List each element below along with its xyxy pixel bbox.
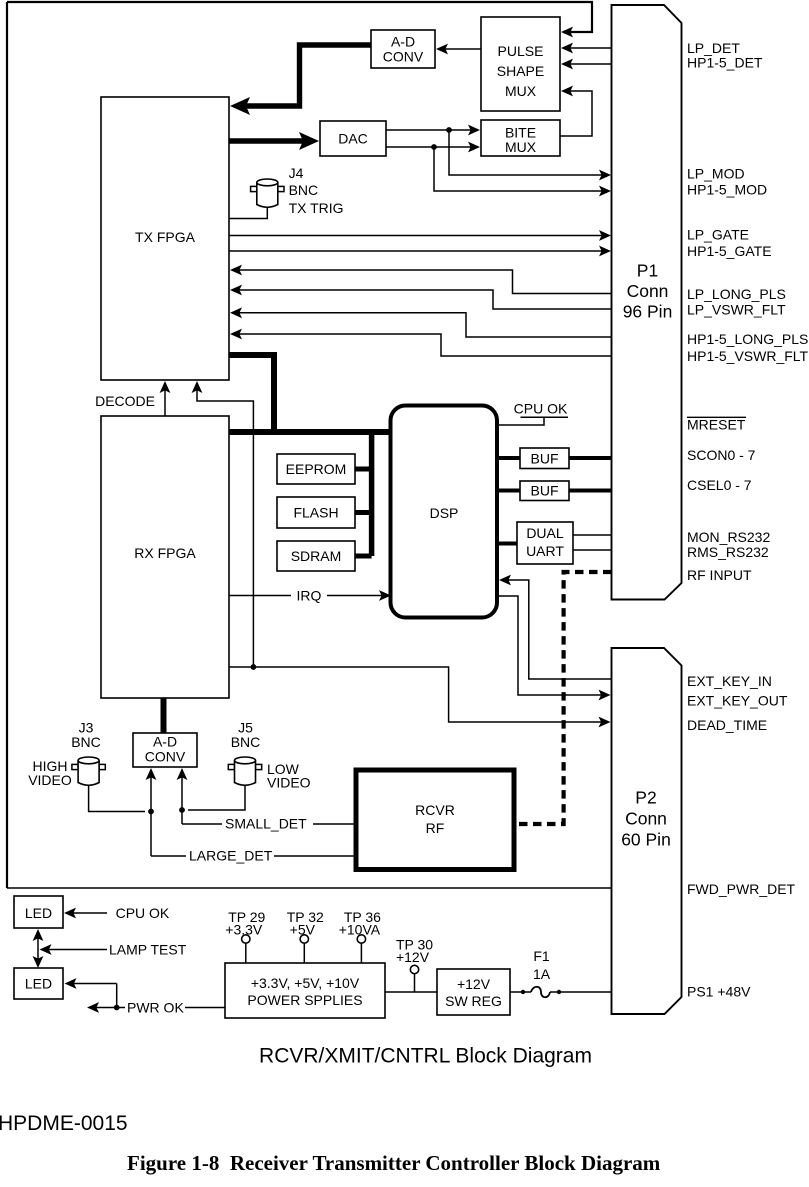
- wire decode select from lower bus to TX FPGA: [192, 381, 254, 667]
- net label RMS_RS232: [687, 544, 769, 560]
- svg-text:SDRAM: SDRAM: [291, 548, 342, 564]
- svg-text:96 Pin: 96 Pin: [623, 302, 673, 322]
- wire LP_GATE TX FPGA to P1: [229, 230, 611, 241]
- junction LARGE_DET: [148, 809, 154, 815]
- wire junction up into A-D CONV left arrow: [146, 768, 157, 812]
- test point TP 32: [287, 909, 324, 963]
- block BUF 1: [520, 448, 569, 469]
- svg-text:+5V: +5V: [290, 921, 316, 937]
- wire CPU OK into LED 1: [64, 908, 107, 919]
- block LED 2: [14, 968, 63, 999]
- svg-text:IRQ: IRQ: [297, 587, 322, 603]
- test point TP 29: [225, 909, 265, 963]
- caption Figure 1-8: [127, 1151, 661, 1175]
- connector J5 BNC low video: [228, 719, 310, 790]
- svg-text:J4: J4: [289, 165, 304, 181]
- svg-text:MUX: MUX: [505, 83, 537, 99]
- wire PWR OK to POWER SUPPLIES: [117, 1007, 225, 1009]
- svg-text:HP1-5_LONG_PLS: HP1-5_LONG_PLS: [687, 331, 808, 347]
- net label HP1-5_MOD: [687, 181, 767, 197]
- wire HP1-5_GATE TX FPGA to P1: [229, 246, 611, 257]
- svg-text:A-D: A-D: [391, 33, 415, 49]
- wire DAC output 2 to BITE MUX: [386, 142, 480, 153]
- svg-text:A-D: A-D: [153, 733, 177, 749]
- net label RF INPUT: [687, 567, 752, 583]
- svg-text:LAMP TEST: LAMP TEST: [109, 941, 187, 957]
- svg-text:MON_RS232: MON_RS232: [687, 529, 770, 545]
- net label LP_DET: [687, 40, 740, 56]
- wire thick main data bus RX FPGA to DSP: [229, 429, 393, 435]
- net label SMALL_DET: [225, 815, 307, 831]
- svg-text:PWR OK: PWR OK: [127, 999, 184, 1015]
- svg-text:RF: RF: [426, 820, 445, 836]
- svg-text:HPDME-0015: HPDME-0015: [0, 1112, 128, 1135]
- svg-text:BUF: BUF: [531, 450, 559, 466]
- svg-text:CONV: CONV: [383, 48, 424, 64]
- wire thick stub bus to SDRAM: [355, 554, 372, 559]
- wire DECODE RX FPGA to TX FPGA: [160, 381, 171, 416]
- svg-text:LARGE_DET: LARGE_DET: [189, 847, 273, 863]
- block FLASH: [277, 497, 355, 528]
- svg-text:+10VA: +10VA: [339, 921, 381, 937]
- svg-text:+3.3V, +5V, +10V: +3.3V, +5V, +10V: [251, 975, 360, 991]
- net label LARGE_DET: [189, 847, 273, 863]
- block DSP: [391, 406, 498, 618]
- wire top border feeding PULSE SHAPE MUX: [7, 2, 592, 37]
- net label MRESET with overbar: [687, 416, 746, 432]
- wire LP_DET P1 to PULSE SHAPE MUX: [561, 43, 612, 54]
- net label IRQ: [297, 587, 322, 603]
- junction DAC output 1: [446, 127, 452, 133]
- svg-text:CPU OK: CPU OK: [116, 905, 170, 921]
- net label LP_GATE: [687, 226, 749, 242]
- svg-text:VIDEO: VIDEO: [28, 772, 72, 788]
- svg-text:FLASH: FLASH: [293, 504, 338, 520]
- wire left border: [6, 2, 8, 888]
- svg-text:PS1 +48V: PS1 +48V: [687, 983, 751, 999]
- net label HP1-5_DET: [687, 54, 763, 70]
- wire thick stub bus to EEPROM: [355, 467, 372, 472]
- net label SCON0 - 7: [687, 447, 756, 463]
- net label PWR OK: [127, 999, 184, 1015]
- svg-text:Figure 1-8 Receiver Transmitt: Figure 1-8 Receiver Transmitter Controll…: [127, 1151, 661, 1175]
- svg-text:HP1-5_MOD: HP1-5_MOD: [687, 181, 767, 197]
- svg-text:BUF: BUF: [531, 482, 559, 498]
- wire LED to LED double arrow: [33, 929, 44, 968]
- connector J3 BNC high video: [28, 719, 105, 788]
- block A-D CONV bottom: [133, 733, 197, 767]
- wire HP1-5_VSWR_FLT P1 to TX FPGA: [230, 329, 612, 356]
- wire RMS_RS232 DUAL UART to P1: [573, 549, 612, 551]
- block SDRAM: [277, 541, 355, 571]
- wire LARGE_DET junction to RCVR RF: [151, 812, 357, 857]
- wire thick bus TX FPGA to DAC: [229, 132, 319, 150]
- svg-text:TX FPGA: TX FPGA: [135, 229, 196, 245]
- svg-text:P2: P2: [635, 788, 656, 808]
- wire HP1-5_LONG_PLS P1 to TX FPGA: [230, 307, 612, 337]
- wire thick DSP to BUF 2: [496, 489, 520, 493]
- wire junction up into A-D CONV right arrow: [177, 768, 188, 810]
- net label FWD_PWR_DET: [687, 881, 796, 897]
- junction PWR OK: [114, 1005, 120, 1011]
- svg-text:Conn: Conn: [627, 281, 669, 301]
- connector P1 96 pin: [612, 5, 682, 600]
- wire J5 BNC to SMALL_DET junction: [188, 783, 245, 810]
- wire thick BUF 1 to P1 SCON0-7: [569, 456, 612, 460]
- wire thick stub bus to FLASH: [355, 510, 372, 515]
- wire thick bus RX FPGA to A-D CONV: [161, 698, 167, 733]
- net label CPU OK: [514, 400, 568, 416]
- wire dashed RF INPUT P1 to RCVR RF: [516, 572, 612, 824]
- wire J3 BNC to LARGE_DET junction: [89, 783, 145, 812]
- svg-text:SW REG: SW REG: [445, 993, 502, 1009]
- svg-text:LED: LED: [25, 905, 52, 921]
- block TX FPGA: [101, 97, 229, 380]
- net label PS1 +48V: [687, 983, 751, 999]
- svg-text:SMALL_DET: SMALL_DET: [225, 815, 307, 831]
- net label HP1-5_LONG_PLS: [687, 331, 808, 347]
- caption RCVR/XMIT/CNTRL Block Diagram: [259, 1044, 592, 1067]
- net label HP1-5_GATE: [687, 243, 772, 259]
- svg-text:MRESET: MRESET: [687, 416, 746, 432]
- block BITE MUX: [481, 120, 560, 156]
- svg-text:BNC: BNC: [71, 734, 101, 750]
- block RX FPGA: [101, 416, 229, 698]
- svg-text:HP1-5_VSWR_FLT: HP1-5_VSWR_FLT: [687, 348, 809, 364]
- block RCVR RF: [356, 770, 514, 870]
- wire bottom border / FWD_PWR_DET net into P2: [7, 887, 612, 889]
- wire SMALL_DET junction to RCVR RF: [182, 810, 357, 824]
- svg-text:PULSE: PULSE: [498, 43, 544, 59]
- wire BITE MUX output loop to PULSE SHAPE MUX: [560, 86, 592, 136]
- svg-text:BNC: BNC: [231, 734, 261, 750]
- wire CPU OK from DSP: [496, 417, 568, 425]
- net label CSEL0 - 7: [687, 477, 752, 493]
- svg-text:SCON0 - 7: SCON0 - 7: [687, 447, 756, 463]
- wire TX FPGA to J4 BNC: [229, 205, 267, 219]
- svg-text:RCVR/XMIT/CNTRL Block Diagram: RCVR/XMIT/CNTRL Block Diagram: [259, 1044, 592, 1067]
- net label LP_MOD: [687, 165, 745, 181]
- wire PULSE SHAPE MUX to A-D CONV: [436, 44, 481, 55]
- svg-text:1A: 1A: [533, 966, 551, 982]
- block PULSE SHAPE MUX: [481, 17, 560, 111]
- block A-D CONV top: [371, 30, 435, 68]
- svg-text:+12V: +12V: [457, 976, 491, 992]
- svg-text:RCVR: RCVR: [415, 802, 455, 818]
- svg-text:CSEL0 - 7: CSEL0 - 7: [687, 477, 752, 493]
- net label MON_RS232: [687, 529, 770, 545]
- svg-text:P1: P1: [637, 261, 658, 281]
- wire LP_LONG_PLS P1 to TX FPGA: [230, 265, 612, 294]
- wire POWER SUPPLIES to +12V SW REG: [385, 991, 437, 993]
- net label LP_LONG_PLS: [687, 286, 786, 302]
- connector J4 BNC TX TRIG: [251, 165, 344, 216]
- block LED 1: [14, 896, 63, 928]
- svg-text:EXT_KEY_OUT: EXT_KEY_OUT: [687, 692, 788, 708]
- test point TP 30: [396, 936, 433, 992]
- svg-text:VIDEO: VIDEO: [267, 774, 311, 790]
- wire HP1-5_DET P1 to PULSE SHAPE MUX: [561, 59, 612, 70]
- wire PWR OK into LED 2: [65, 978, 117, 1007]
- svg-text:SHAPE: SHAPE: [497, 63, 544, 79]
- net label DECODE: [95, 393, 155, 409]
- junction DAC output 2: [431, 144, 437, 150]
- svg-text:+3.3V: +3.3V: [225, 921, 263, 937]
- svg-text:LED: LED: [25, 975, 52, 991]
- net label DEAD_TIME: [687, 717, 767, 733]
- wire LP_VSWR_FLT P1 to TX FPGA: [230, 285, 612, 309]
- svg-text:LP_LONG_PLS: LP_LONG_PLS: [687, 286, 786, 302]
- wire DEAD_TIME RX FPGA to P2: [229, 667, 611, 727]
- net label LP_VSWR_FLT: [687, 301, 786, 317]
- wire thick bus TX FPGA down to main bus: [229, 355, 274, 432]
- block DUAL UART: [517, 522, 573, 564]
- net label CPU OK bottom: [116, 905, 170, 921]
- svg-text:CPU OK: CPU OK: [514, 400, 568, 416]
- svg-text:60 Pin: 60 Pin: [621, 830, 671, 850]
- net label HP1-5_VSWR_FLT: [687, 348, 809, 364]
- svg-text:RX FPGA: RX FPGA: [134, 545, 196, 561]
- test point TP 36: [339, 909, 381, 963]
- svg-text:POWER SPPLIES: POWER SPPLIES: [247, 992, 362, 1008]
- wire MON_RS232 DUAL UART to P1: [573, 534, 612, 536]
- svg-text:LP_VSWR_FLT: LP_VSWR_FLT: [687, 301, 786, 317]
- svg-text:DECODE: DECODE: [95, 393, 155, 409]
- svg-text:HP1-5_GATE: HP1-5_GATE: [687, 243, 772, 259]
- svg-text:HP1-5_DET: HP1-5_DET: [687, 54, 763, 70]
- net label LAMP TEST: [109, 941, 187, 957]
- svg-text:DUAL: DUAL: [526, 525, 564, 541]
- wire thick memory bus vertical: [369, 429, 375, 556]
- block EEPROM: [277, 454, 355, 484]
- connector P2 60 pin: [612, 648, 682, 1014]
- svg-text:DAC: DAC: [338, 130, 368, 146]
- junction SMALL_DET: [179, 807, 185, 813]
- wire DAC output 1 to BITE MUX: [386, 125, 480, 136]
- caption HPDME-0015: [0, 1112, 128, 1135]
- wire thick BUF 2 to P1 CSEL0-7: [569, 489, 612, 493]
- svg-text:FWD_PWR_DET: FWD_PWR_DET: [687, 881, 796, 897]
- wire PWR OK stub arrow: [87, 1002, 117, 1013]
- net label EXT_KEY_OUT: [687, 692, 788, 708]
- wire EXT_KEY_IN P2 to DSP: [499, 575, 612, 679]
- wire LP_MOD to P1: [449, 130, 611, 180]
- wire thick DSP to DUAL UART: [496, 542, 517, 546]
- fuse F1 1A: [521, 948, 561, 997]
- svg-text:LP_MOD: LP_MOD: [687, 165, 745, 181]
- wire LAMP TEST into LED link: [40, 944, 108, 955]
- svg-text:LP_GATE: LP_GATE: [687, 226, 749, 242]
- svg-text:DEAD_TIME: DEAD_TIME: [687, 717, 767, 733]
- wire thick feedback bus A-D CONV to TX FPGA: [230, 45, 371, 115]
- svg-text:UART: UART: [526, 543, 564, 559]
- svg-text:CONV: CONV: [145, 748, 186, 764]
- svg-text:EEPROM: EEPROM: [286, 461, 347, 477]
- wire +12V SW REG through fuse to P2 PS1: [510, 991, 612, 993]
- wire IRQ RX FPGA to DSP: [228, 590, 391, 601]
- svg-text:BNC: BNC: [289, 182, 319, 198]
- wire thick DSP to BUF 1: [496, 456, 520, 460]
- svg-text:DSP: DSP: [430, 505, 459, 521]
- svg-text:EXT_KEY_IN: EXT_KEY_IN: [687, 673, 772, 689]
- block BUF 2: [520, 481, 569, 501]
- svg-text:+12V: +12V: [396, 949, 430, 965]
- svg-text:MUX: MUX: [505, 139, 537, 155]
- block DAC: [320, 121, 386, 156]
- net label EXT_KEY_IN: [687, 673, 772, 689]
- svg-text:F1: F1: [533, 948, 550, 964]
- svg-text:RF INPUT: RF INPUT: [687, 567, 752, 583]
- svg-text:Conn: Conn: [625, 809, 667, 829]
- svg-text:TX TRIG: TX TRIG: [289, 200, 344, 216]
- wire HP1-5_MOD to P1: [434, 147, 611, 196]
- block POWER SUPPLIES: [225, 963, 385, 1018]
- junction decode select: [251, 664, 257, 670]
- block +12V SW REG: [437, 969, 510, 1015]
- svg-text:RMS_RS232: RMS_RS232: [687, 544, 769, 560]
- wire EXT_KEY_OUT DSP to P2: [496, 596, 611, 700]
